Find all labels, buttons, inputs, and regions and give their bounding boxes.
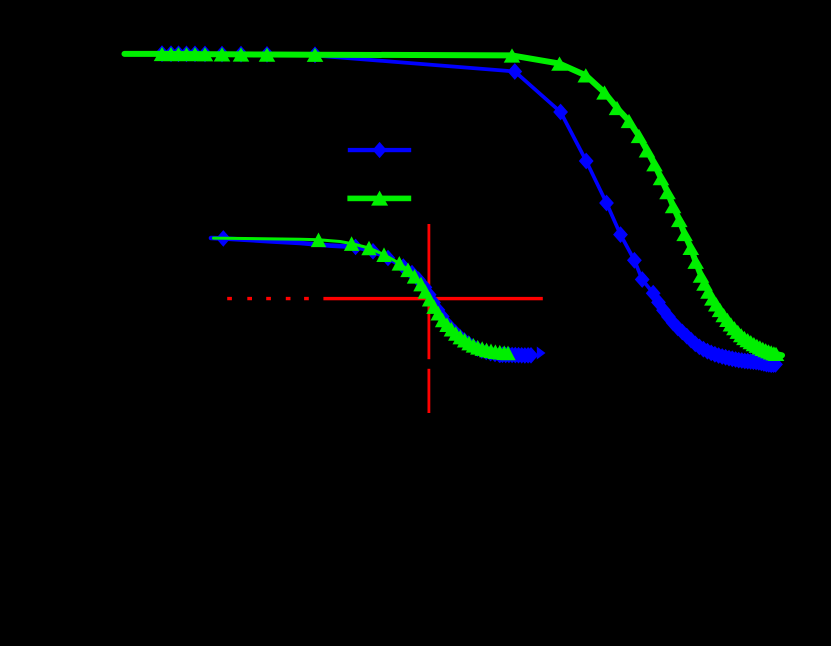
main green curve triangle markers [154,47,785,361]
main green curve line [125,54,783,355]
legend blue diamond marker [373,142,387,158]
main blue curve diamond markers [155,45,783,373]
red dashed horizontal threshold line (inset left dashes) [227,297,309,300]
inset blue curve line [211,238,534,355]
red solid horizontal line segment [323,297,542,300]
legend blue sample line [348,148,411,152]
red vertical threshold line (lower dash segment) [428,369,431,413]
inset green curve triangle markers [311,233,516,361]
inset green curve line [214,238,510,353]
main blue curve line [125,54,778,365]
legend green triangle marker [371,191,388,206]
inset blue curve diamond markers [216,230,538,364]
inset blue end arrow marker [537,347,546,360]
legend green sample line [347,196,411,202]
red vertical threshold line (upper segment) [428,224,431,359]
